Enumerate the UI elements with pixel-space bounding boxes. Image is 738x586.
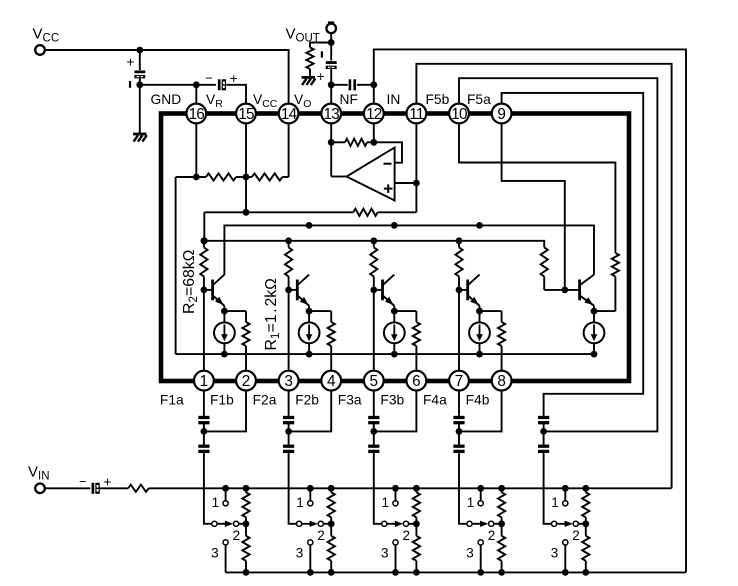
pin 7 (449, 371, 469, 391)
wire emitter to resistor cell4 (480, 310, 502, 312)
node emitter cell1 (221, 308, 228, 315)
wire pin16 internal down (195, 124, 197, 177)
svg-text:F2a: F2a (253, 393, 277, 408)
resistor bias chain R-left (206, 173, 236, 180)
wire node to cap B cell2 (288, 431, 290, 444)
wire pin5 to cap A cell3 (373, 391, 375, 416)
resistor feedback VO-NF (345, 139, 367, 146)
svg-text:−: − (205, 71, 213, 86)
resistor VOUT load (306, 48, 313, 70)
resistor bias chain R-right (252, 173, 282, 180)
pin 8 (492, 371, 512, 391)
wire NF outer loop pin12 to bottom bus (374, 49, 686, 572)
node op-amp plus junction (413, 180, 420, 187)
node reference-pin15 junction (243, 209, 250, 216)
resistor base R cell4 (458, 241, 460, 248)
wire VOUT terminal down (330, 33, 332, 42)
resistor emitter cell1 (245, 311, 247, 322)
svg-text:13: 13 (323, 106, 339, 123)
svg-text:16: 16 (189, 106, 205, 123)
switch pos1 contact cell4 (477, 485, 484, 492)
svg-text:2: 2 (242, 373, 251, 390)
svg-text:3: 3 (211, 546, 219, 561)
node pos3 bus cell2 (307, 569, 314, 576)
pin 15 (236, 104, 256, 124)
svg-text:1: 1 (212, 495, 220, 510)
node collector bus T3 (391, 222, 398, 229)
svg-text:1: 1 (551, 495, 559, 510)
IC boundary box (161, 114, 629, 382)
wire pin3 to cap A cell2 (288, 391, 290, 416)
wire emitter to resistor cell1 (224, 310, 246, 312)
svg-text:15: 15 (238, 106, 254, 123)
wire base bias bus (204, 241, 544, 248)
resistor upper cell1 (245, 488, 247, 492)
wire node to cap B cell1 (203, 431, 205, 444)
transistor Q5 (544, 289, 579, 291)
svg-text:3: 3 (466, 546, 474, 561)
resistor base R cell3 (373, 241, 375, 248)
node chain-pin15 junction (243, 174, 250, 181)
node current source gnd cell5 (591, 351, 598, 358)
capacitor B cell2 (283, 445, 294, 448)
switch pos3 contact cell4 (478, 540, 483, 545)
wire pin12 internal down (373, 124, 375, 142)
VIN terminal (35, 484, 45, 494)
switch pos3 contact cell3 (393, 540, 398, 545)
node resistor top cell5 (582, 485, 589, 492)
svg-text:5: 5 (370, 373, 379, 390)
wire collector bus (224, 225, 594, 274)
node base bus cell3 (370, 237, 377, 244)
capacitor A cell2 (283, 416, 294, 419)
wire base to pin7 (458, 290, 460, 370)
ground (302, 76, 315, 79)
resistor lower cell2 (330, 524, 332, 536)
resistor lower cell1 (245, 524, 247, 536)
transistor Q1 (204, 289, 213, 291)
capacitor VR bypass electrolytic (218, 79, 221, 90)
node pos3 bus cell5 (562, 569, 569, 576)
node base cell2 (285, 287, 292, 294)
wire pin6 jog cell3 (374, 391, 417, 431)
wire cap B to switch pole cell2 (289, 453, 297, 524)
svg-text:7: 7 (455, 373, 464, 390)
node base bus cell4 (456, 237, 463, 244)
node filter mid cell2 (285, 428, 292, 435)
wire VCC cap bottom lead (139, 78, 141, 85)
node VCC-cap junction (136, 47, 143, 54)
svg-text:2: 2 (233, 528, 241, 543)
wire reference line left segment (204, 211, 353, 213)
wire GND to pin16 (140, 84, 197, 86)
pin 14 (279, 104, 299, 124)
pin 10 (449, 104, 469, 124)
resistor lower cell3 (415, 524, 417, 536)
wire pin11 internal down (415, 124, 417, 212)
wire cap to series resistor (99, 487, 128, 489)
wire reference drop to base bus (203, 212, 205, 241)
node pos3 bus cell3 (392, 569, 399, 576)
svg-text:1: 1 (467, 495, 475, 510)
capacitor NF coupling (349, 79, 352, 90)
svg-text:2: 2 (403, 528, 411, 543)
node current source gnd cell1 (221, 351, 228, 358)
node switch pos2 cell3 (413, 520, 420, 527)
pin 13 (321, 104, 341, 124)
wire cap A to node cell3 (373, 424, 375, 431)
wire VR cap to pin15 (226, 85, 246, 103)
VCC terminal (35, 45, 45, 55)
pin 12 (364, 104, 384, 124)
wire base to pin5 (373, 290, 375, 370)
wire VCC cap top lead (139, 50, 141, 70)
wire internal ground bus (176, 353, 594, 355)
node GND net junction (136, 81, 143, 88)
ground (133, 133, 146, 136)
node filter mid cell4 (456, 428, 463, 435)
node resistor top cell2 (328, 485, 335, 492)
svg-text:2: 2 (572, 528, 580, 543)
node resistor top cell4 (498, 485, 505, 492)
node resistor bottom cell4 (498, 569, 505, 576)
wire cap B to switch pole cell1 (204, 453, 212, 524)
node emitter cell3 (391, 308, 398, 315)
node pos3 bus cell4 (477, 569, 484, 576)
node base cell1 (201, 287, 208, 294)
resistor lower cell5 (585, 524, 587, 536)
svg-text:+: + (104, 475, 112, 490)
svg-text:10: 10 (451, 106, 467, 123)
capacitor B cell3 (368, 445, 379, 448)
wire node to cap B cell5 (543, 431, 545, 444)
pin 16 (186, 104, 206, 124)
node chain-pin16 junction (193, 174, 200, 181)
pin 6 (407, 371, 427, 391)
wire IN outer loop pin11 to VIN bus (416, 64, 671, 489)
node current source gnd cell3 (391, 351, 398, 358)
wire VO to NF cap (331, 84, 348, 86)
resistor emitter cell3 (415, 311, 417, 322)
capacitor A cell5 (538, 416, 549, 419)
node filter mid cell5 (540, 428, 547, 435)
resistor lower cell4 (501, 524, 503, 536)
switch wiper cell5 (552, 521, 557, 526)
wire VIN to coupling cap (45, 487, 90, 489)
svg-text:8: 8 (497, 373, 506, 390)
svg-text:2: 2 (317, 528, 325, 543)
svg-text:F3a: F3a (338, 393, 362, 408)
svg-text:1: 1 (382, 495, 390, 510)
node base bus cell2 (285, 237, 292, 244)
svg-text:GND: GND (151, 92, 182, 107)
svg-text:1: 1 (200, 373, 209, 390)
node VOUT junction (328, 39, 335, 46)
node emitter cell5 (591, 308, 598, 315)
capacitor B cell1 (198, 445, 209, 448)
node filter mid cell1 (201, 428, 208, 435)
svg-text:3: 3 (381, 546, 389, 561)
wire VIN bus (149, 487, 672, 489)
switch pos1 contact cell5 (562, 485, 569, 492)
resistor VIN series (128, 485, 148, 492)
wire GND net down to ground (139, 85, 141, 134)
node switch pos2 cell5 (582, 520, 589, 527)
current source I5 (593, 311, 595, 322)
node base bus cell1 (201, 237, 208, 244)
wire base to pin3 (288, 290, 290, 370)
wire cap A to node cell1 (203, 424, 205, 431)
capacitor VOUT coupling electrolytic (326, 61, 337, 64)
node NF feedback junction (370, 139, 377, 146)
pin 9 (492, 104, 512, 124)
resistor emitter cell2 (330, 311, 332, 322)
svg-text:F5a: F5a (467, 92, 491, 107)
node VO junction (328, 81, 335, 88)
switch pos3 contact cell1 (223, 540, 228, 545)
node current source gnd cell4 (476, 351, 483, 358)
node base cell4 (456, 287, 463, 294)
svg-text:−: − (79, 474, 87, 489)
svg-text:F5b: F5b (426, 92, 450, 107)
wire cap B to switch pole cell4 (459, 453, 467, 524)
wire feedback bottom bus (226, 571, 686, 573)
wire cap B to switch pole cell5 (544, 453, 552, 524)
capacitor B cell4 (453, 445, 464, 448)
wire cap B to switch pole cell3 (374, 453, 382, 524)
wire internal ground rail down (175, 177, 177, 354)
capacitor B cell5 (538, 445, 549, 448)
node NF junction (370, 81, 377, 88)
svg-text:IN: IN (387, 92, 401, 107)
svg-text:3: 3 (551, 546, 559, 561)
svg-text:2: 2 (488, 528, 496, 543)
svg-text:R2=68kΩ: R2=68kΩ (181, 249, 200, 314)
op-amp U1 (347, 148, 395, 201)
resistor upper cell4 (501, 488, 503, 492)
wire VO-NF resistor leads (331, 141, 345, 143)
svg-text:F4a: F4a (423, 393, 447, 408)
wire pin1 to cap A cell1 (203, 391, 205, 416)
node resistor top cell3 (413, 485, 420, 492)
node resistor bottom cell2 (328, 569, 335, 576)
svg-text:9: 9 (497, 106, 506, 123)
resistor upper cell3 (415, 488, 417, 492)
wire VCC supply to pin14 (45, 50, 289, 103)
pin 3 (279, 371, 299, 391)
resistor base R cell5 (541, 247, 548, 276)
svg-text:F1a: F1a (160, 393, 184, 408)
node resistor bottom cell5 (582, 569, 589, 576)
pin 11 (407, 104, 427, 124)
node base bus left junction (201, 237, 208, 244)
node resistor bottom cell3 (413, 569, 420, 576)
capacitor A cell4 (453, 416, 464, 419)
capacitor VCC decoupling electrolytic (134, 70, 145, 73)
capacitor A cell1 (198, 416, 209, 419)
capacitor VIN coupling electrolytic (92, 483, 95, 494)
capacitor A cell3 (368, 416, 379, 419)
pin 4 (321, 371, 341, 391)
svg-text:3: 3 (284, 373, 293, 390)
svg-text:3: 3 (296, 546, 304, 561)
resistor filter5 emitter (612, 253, 619, 277)
resistor base R cell2 (288, 241, 290, 248)
wire cap A to node cell5 (543, 424, 545, 431)
wire pin8 jog cell4 (459, 391, 502, 431)
node emitter cell2 (306, 308, 313, 315)
wire emitter to resistor cell5 (594, 310, 615, 312)
wire pin14 internal down (288, 124, 290, 177)
svg-text:12: 12 (366, 106, 382, 123)
node pin16 top junction (193, 81, 200, 88)
pin 5 (364, 371, 384, 391)
node emitter cell4 (476, 308, 483, 315)
node resistor bottom cell1 (243, 569, 250, 576)
resistor base R cell1 (203, 241, 205, 248)
wire F5b outer loop pin10 to filter5 node (459, 78, 657, 431)
node resistor top cell1 (243, 485, 250, 492)
wire VOUT cap top lead (330, 43, 332, 61)
svg-text:14: 14 (281, 106, 298, 123)
switch pos1 contact cell2 (307, 485, 314, 492)
node VO feedback junction (328, 139, 335, 146)
transistor Q2 (289, 289, 298, 291)
svg-text:F4b: F4b (466, 393, 490, 408)
wire pin9 internal to transistor Q5 base (502, 124, 565, 290)
wire load resistor to ground (309, 69, 311, 76)
wire pin16 stub (195, 85, 197, 103)
wire pin13 internal down (330, 124, 332, 176)
node base cell3 (370, 287, 377, 294)
node switch pos2 cell2 (328, 520, 335, 527)
wire pin15 internal down (245, 124, 247, 212)
svg-text:NF: NF (340, 92, 358, 107)
svg-text:+: + (127, 55, 135, 70)
svg-text:1: 1 (296, 495, 304, 510)
wire F5a outer loop pin9 to filter5 cap (502, 93, 644, 416)
switch wiper cell3 (382, 521, 387, 526)
wire pin4 jog cell2 (289, 391, 332, 431)
current source I1 (223, 311, 225, 322)
switch pos3 contact cell5 (563, 540, 568, 545)
svg-text:4: 4 (327, 373, 336, 390)
node switch pos2 cell4 (498, 520, 505, 527)
switch wiper cell2 (297, 521, 302, 526)
wire VO junction to pin13 (330, 85, 332, 103)
svg-text:F3b: F3b (380, 393, 404, 408)
node switch pos2 cell1 (243, 520, 250, 527)
switch pos3 contact cell2 (308, 540, 313, 545)
transistor Q3 (374, 289, 383, 291)
wire reference line right segment (378, 211, 417, 213)
node filter mid cell3 (370, 428, 377, 435)
wire cap A to node cell4 (458, 424, 460, 431)
svg-text:6: 6 (412, 373, 421, 390)
wire pin10 internal to filter5 resistor (459, 124, 615, 253)
current source I3 (393, 311, 395, 322)
wire cap A to node cell2 (288, 424, 290, 431)
wire bias chain left segment (176, 176, 206, 178)
wire pin2 jog cell1 (204, 391, 246, 431)
wire op-amp output to VO (331, 176, 346, 178)
switch wiper cell4 (467, 521, 472, 526)
wire NF cap to pin12 net (357, 84, 374, 86)
node collector bus T4 (476, 222, 483, 229)
pin 1 (194, 371, 214, 391)
wire emitter to resistor cell2 (309, 310, 331, 312)
node base cell5 (561, 287, 568, 294)
wire VOUT cap bottom lead (330, 69, 332, 85)
wire GND to VR cap (196, 84, 216, 86)
wire base to pin1 (203, 290, 205, 370)
transistor Q4 (459, 289, 468, 291)
node collector bus T2 (306, 222, 313, 229)
pin 2 (236, 371, 256, 391)
resistor upper cell5 (585, 488, 587, 492)
current source I4 (479, 311, 481, 322)
VOUT terminal (328, 21, 334, 23)
wire NF to op-amp inverting input (374, 142, 402, 162)
resistor reference line (353, 209, 377, 216)
svg-text:F2b: F2b (295, 393, 319, 408)
svg-text:11: 11 (409, 106, 424, 123)
switch wiper cell1 (212, 521, 217, 526)
wire chain middle segment (236, 176, 252, 178)
current source I2 (308, 311, 310, 322)
wire chain right segment (282, 176, 288, 178)
wire emitter to resistor cell3 (394, 310, 416, 312)
wire op-amp noninverting input to pin11 net (395, 182, 417, 184)
switch pos1 contact cell3 (392, 485, 399, 492)
wire node to cap B cell3 (373, 431, 375, 444)
svg-text:+: + (230, 71, 238, 86)
wire pin7 to cap A cell4 (458, 391, 460, 416)
resistor upper cell2 (330, 488, 332, 492)
wire VOUT to load resistor (310, 43, 331, 48)
svg-text:F1b: F1b (210, 393, 234, 408)
svg-text:+: + (317, 69, 325, 84)
wire node to cap B cell4 (458, 431, 460, 444)
node current source gnd cell2 (306, 351, 313, 358)
switch pos1 contact cell1 (222, 485, 229, 492)
resistor emitter cell4 (501, 311, 503, 322)
